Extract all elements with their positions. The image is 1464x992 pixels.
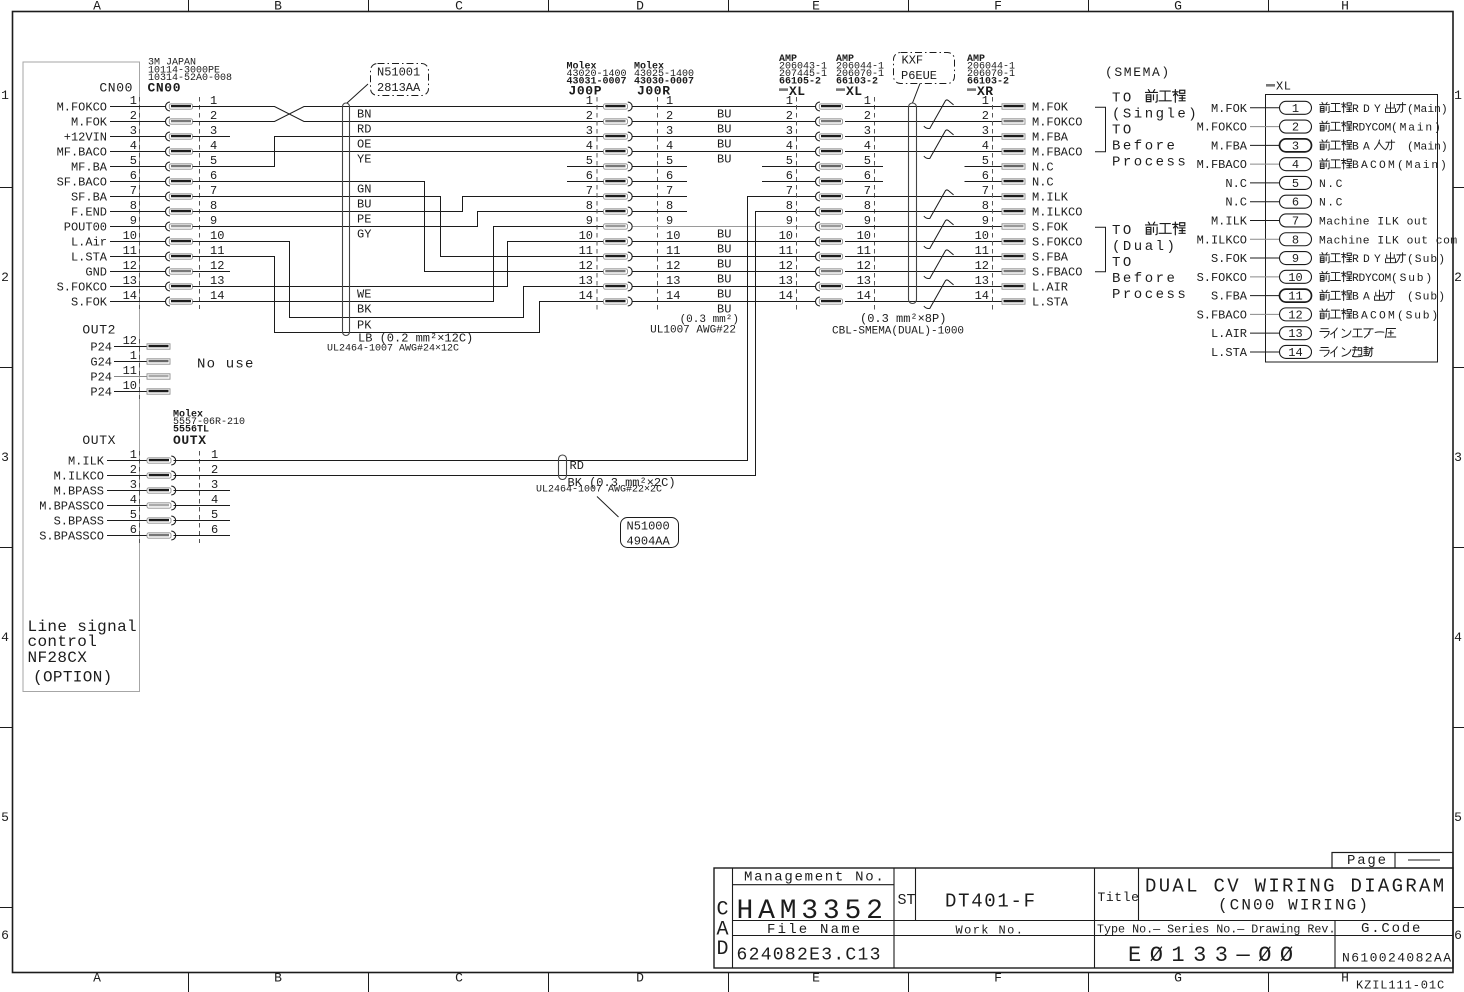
svg-text:10: 10 xyxy=(579,229,593,243)
svg-text:No use: No use xyxy=(197,357,255,373)
svg-text:8: 8 xyxy=(210,199,217,213)
svg-text:YE: YE xyxy=(357,153,371,167)
svg-text:7: 7 xyxy=(666,184,673,198)
svg-text:5: 5 xyxy=(864,154,871,168)
svg-text:1: 1 xyxy=(130,349,137,363)
svg-text:2: 2 xyxy=(1292,121,1299,135)
svg-text:M.ILK: M.ILK xyxy=(68,455,105,469)
svg-text:6: 6 xyxy=(864,169,871,183)
svg-text:5: 5 xyxy=(982,154,989,168)
svg-text:Page: Page xyxy=(1347,853,1388,869)
svg-text:(Sub): (Sub) xyxy=(1407,292,1446,304)
svg-text:BA: BA xyxy=(1352,292,1374,304)
svg-text:2813AA: 2813AA xyxy=(377,81,421,95)
svg-text:13: 13 xyxy=(123,274,137,288)
svg-text:10: 10 xyxy=(975,229,989,243)
wire CN00-4 to J00P-4 xyxy=(193,151,604,153)
svg-text:5: 5 xyxy=(130,508,137,522)
svg-text:11: 11 xyxy=(779,244,793,258)
wire XL-B-8 to XR-8 xyxy=(845,211,1002,213)
svg-text:10: 10 xyxy=(857,229,871,243)
wire stub XR-6 left xyxy=(965,181,1003,183)
svg-text:M.ILKCO: M.ILKCO xyxy=(54,470,104,484)
svg-text:UL2464-1007 AWG#24×12C: UL2464-1007 AWG#24×12C xyxy=(327,344,459,355)
svg-text:1: 1 xyxy=(130,94,137,108)
svg-text:9: 9 xyxy=(982,214,989,228)
svg-text:1: 1 xyxy=(1454,88,1462,103)
svg-text:N.C: N.C xyxy=(1225,196,1247,210)
svg-text:14: 14 xyxy=(210,289,224,303)
svg-text:P24: P24 xyxy=(90,341,112,355)
svg-text:BACOM: BACOM xyxy=(1352,160,1397,172)
svg-text:RD: RD xyxy=(357,123,371,137)
svg-text:WE: WE xyxy=(357,288,371,302)
svg-text:S.FBACO: S.FBACO xyxy=(1032,266,1082,280)
svg-text:1: 1 xyxy=(786,94,793,108)
svg-text:6: 6 xyxy=(1292,196,1299,210)
svg-text:2: 2 xyxy=(864,109,871,123)
wire XL-B-9 to XR-9 xyxy=(845,226,1002,228)
svg-text:BU: BU xyxy=(717,258,731,272)
wire CN00-8 to J00P-7 xyxy=(193,197,604,212)
svg-text:A: A xyxy=(93,0,101,14)
svg-text:L.STA: L.STA xyxy=(1211,346,1248,360)
svg-text:MF.BA: MF.BA xyxy=(71,161,108,175)
svg-text:E: E xyxy=(812,0,820,14)
svg-text:4904AA: 4904AA xyxy=(627,535,671,549)
svg-text:S.FOK: S.FOK xyxy=(71,296,108,310)
svg-text:9: 9 xyxy=(130,214,137,228)
connector CN00 mating face dashed lines xyxy=(139,97,141,309)
svg-text:KZIL111-01C: KZIL111-01C xyxy=(1356,979,1445,992)
connector XL table box xyxy=(1266,95,1438,363)
svg-text:1: 1 xyxy=(982,94,989,108)
bracket XR pins 9-12 dual group xyxy=(1095,227,1106,271)
svg-text:5: 5 xyxy=(586,154,593,168)
svg-text:XL: XL xyxy=(1276,80,1291,94)
svg-text:6: 6 xyxy=(211,523,218,537)
svg-text:L.Air: L.Air xyxy=(71,236,107,250)
wire XL-B-1 to XR-1 xyxy=(845,106,1002,108)
svg-text:2: 2 xyxy=(210,109,217,123)
svg-text:GND: GND xyxy=(85,266,107,280)
svg-text:6: 6 xyxy=(666,169,673,183)
svg-text:N51000: N51000 xyxy=(627,520,670,534)
svg-text:CN00: CN00 xyxy=(99,81,133,96)
svg-text:RDYCOM: RDYCOM xyxy=(1352,273,1391,285)
svg-text:OUTX: OUTX xyxy=(82,433,116,448)
twisted pair mark wires 11-12 xyxy=(924,250,954,279)
svg-text:12: 12 xyxy=(579,259,593,273)
svg-text:4: 4 xyxy=(864,139,871,153)
svg-text:1: 1 xyxy=(864,94,871,108)
svg-text:6: 6 xyxy=(1454,928,1462,943)
wire CN00-10 to J00P-13 xyxy=(193,242,604,318)
svg-text:F: F xyxy=(994,0,1002,14)
svg-text:8: 8 xyxy=(130,199,137,213)
svg-text:(Main): (Main) xyxy=(1407,104,1448,116)
svg-text:TO: TO xyxy=(1112,255,1134,271)
svg-text:14: 14 xyxy=(975,289,989,303)
wire XL-B-3 to XR-3 xyxy=(845,136,1002,138)
wire CN00-11 to J00P-14 xyxy=(193,257,604,333)
svg-text:9: 9 xyxy=(1292,252,1299,266)
svg-text:L.AIR: L.AIR xyxy=(1211,327,1247,341)
svg-text:4: 4 xyxy=(666,139,673,153)
svg-text:M.ILKCO: M.ILKCO xyxy=(1197,233,1247,247)
balloon KXF P6EUE xyxy=(894,53,955,84)
svg-text:TO: TO xyxy=(1112,123,1134,139)
svg-text:7: 7 xyxy=(210,184,217,198)
twisted pair mark wires 1-2 xyxy=(924,100,954,129)
svg-text:3: 3 xyxy=(1,450,9,465)
svg-text:4: 4 xyxy=(211,493,218,507)
wire XL-B-11 to XR-11 xyxy=(845,256,1002,258)
svg-text:File Name: File Name xyxy=(767,922,862,938)
svg-text:11: 11 xyxy=(210,244,224,258)
svg-text:4: 4 xyxy=(1454,630,1462,645)
svg-text:8: 8 xyxy=(864,199,871,213)
svg-text:2: 2 xyxy=(666,109,673,123)
cable LB 12C sheath oval xyxy=(343,103,350,336)
svg-text:OUTX: OUTX xyxy=(173,433,207,448)
svg-text:9: 9 xyxy=(210,214,217,228)
wire stub J00R-5 xyxy=(633,166,688,168)
svg-text:9: 9 xyxy=(786,214,793,228)
cable BK 2C sheath oval xyxy=(559,455,567,480)
svg-text:Process: Process xyxy=(1112,287,1188,303)
svg-text:3: 3 xyxy=(130,478,137,492)
svg-text:N.C: N.C xyxy=(1225,177,1247,191)
wire stub XL-A-6 left xyxy=(762,181,816,183)
svg-text:S.BPASSCO: S.BPASSCO xyxy=(39,530,104,544)
svg-text:4: 4 xyxy=(130,139,137,153)
svg-text:P6EUE: P6EUE xyxy=(901,69,937,83)
svg-text:L.STA: L.STA xyxy=(71,251,108,265)
connector XL table header xyxy=(1266,84,1275,87)
wire J00R-9 to XL-9 xyxy=(633,226,816,228)
svg-text:12: 12 xyxy=(975,259,989,273)
svg-text:TO: TO xyxy=(1112,223,1134,239)
svg-text:12: 12 xyxy=(779,259,793,273)
svg-text:12: 12 xyxy=(1288,308,1302,322)
svg-text:7: 7 xyxy=(786,184,793,198)
svg-text:ST: ST xyxy=(898,892,916,909)
svg-text:2: 2 xyxy=(1454,270,1462,285)
svg-text:Process: Process xyxy=(1112,155,1188,171)
svg-text:CN00: CN00 xyxy=(148,81,182,96)
svg-text:S.BPASS: S.BPASS xyxy=(54,515,104,529)
wire stub OUTX-3 xyxy=(174,490,231,492)
svg-text:PK: PK xyxy=(357,319,372,333)
wire CN00-14 to J00P-9 xyxy=(193,227,604,302)
svg-text:4: 4 xyxy=(1292,158,1299,172)
svg-text:2: 2 xyxy=(211,463,218,477)
svg-text:G: G xyxy=(1174,971,1182,986)
svg-text:Before: Before xyxy=(1112,271,1177,287)
svg-text:M.FOK: M.FOK xyxy=(1211,102,1248,116)
svg-text:4: 4 xyxy=(1,630,9,645)
cable SMEMA sheath oval xyxy=(909,103,917,304)
wire stub OUTX-6 xyxy=(174,535,231,537)
wire stub J00P-5 xyxy=(567,166,604,168)
wire J00R-10 to XL-10 xyxy=(633,241,816,243)
svg-text:BU: BU xyxy=(717,123,731,137)
wire stub CN00-3 xyxy=(193,136,231,138)
svg-text:RDY: RDY xyxy=(1352,104,1385,116)
svg-text:5: 5 xyxy=(130,154,137,168)
svg-text:M.FOKCO: M.FOKCO xyxy=(1032,116,1082,130)
svg-text:Type No.— Series No.— Drawing: Type No.— Series No.— Drawing Rev. xyxy=(1097,923,1335,937)
svg-text:11: 11 xyxy=(666,244,680,258)
wire stub XL-B-5 right xyxy=(845,166,883,168)
svg-text:EØ133—ØØ: EØ133—ØØ xyxy=(1128,943,1302,968)
svg-text:E: E xyxy=(812,971,820,986)
svg-text:3: 3 xyxy=(211,478,218,492)
svg-text:P24: P24 xyxy=(90,386,112,400)
svg-text:N.C: N.C xyxy=(1032,176,1054,190)
svg-text:N.C: N.C xyxy=(1032,161,1054,175)
wire stub OUTX-5 xyxy=(174,520,231,522)
svg-text:OE: OE xyxy=(357,138,371,152)
svg-text:BU: BU xyxy=(717,243,731,257)
svg-text:H: H xyxy=(1341,971,1349,986)
svg-text:Machine ILK out: Machine ILK out xyxy=(1319,216,1429,228)
svg-text:6: 6 xyxy=(586,169,593,183)
svg-text:10: 10 xyxy=(210,229,224,243)
wire XL-B-12 to XR-12 xyxy=(845,271,1002,273)
wire stub J00R-7 xyxy=(633,196,688,198)
svg-text:8: 8 xyxy=(982,199,989,213)
svg-text:13: 13 xyxy=(975,274,989,288)
svg-text:S.FOK: S.FOK xyxy=(1032,221,1069,235)
svg-text:M.ILKCO: M.ILKCO xyxy=(1032,206,1082,220)
svg-text:6: 6 xyxy=(786,169,793,183)
connector XL mating face dashed lines xyxy=(796,97,798,310)
svg-text:4: 4 xyxy=(982,139,989,153)
svg-text:13: 13 xyxy=(579,274,593,288)
svg-text:POUT00: POUT00 xyxy=(64,221,107,235)
svg-text:N.C: N.C xyxy=(1319,179,1344,191)
svg-text:1: 1 xyxy=(1,88,9,103)
wire OUTX-2 (M.ILKCO) to XL-8 xyxy=(174,212,816,476)
wire OUTX-1 (M.ILK) to XL-7 xyxy=(174,197,816,461)
svg-text:B: B xyxy=(274,0,282,14)
svg-text:8: 8 xyxy=(1292,233,1299,247)
svg-text:2: 2 xyxy=(786,109,793,123)
svg-text:7: 7 xyxy=(586,184,593,198)
svg-text:S.FOKCO: S.FOKCO xyxy=(1032,236,1082,250)
svg-text:4: 4 xyxy=(130,493,137,507)
svg-text:5: 5 xyxy=(666,154,673,168)
svg-text:XL: XL xyxy=(846,84,863,99)
svg-text:3: 3 xyxy=(1454,450,1462,465)
svg-text:9: 9 xyxy=(666,214,673,228)
svg-text:13: 13 xyxy=(1288,327,1302,341)
svg-text:11: 11 xyxy=(975,244,989,258)
svg-text:G.Code: G.Code xyxy=(1361,921,1422,937)
svg-text:3: 3 xyxy=(130,124,137,138)
wire stub J00R-8 xyxy=(633,211,688,213)
wire CN00-9 to J00P-8 xyxy=(193,212,604,227)
svg-text:9: 9 xyxy=(864,214,871,228)
svg-text:(Main): (Main) xyxy=(1397,160,1449,172)
wire J00R-2 to XL-2 xyxy=(633,121,816,123)
svg-text:SF.BACO: SF.BACO xyxy=(57,176,107,190)
wire stub XR-5 left xyxy=(965,166,1003,168)
svg-text:F.END: F.END xyxy=(71,206,107,220)
balloon N51001 2813AA xyxy=(371,64,429,96)
svg-text:L.AIR: L.AIR xyxy=(1032,281,1068,295)
svg-text:1: 1 xyxy=(1292,102,1299,116)
twisted pair mark wires 13-14 xyxy=(924,280,954,309)
wire J00R-3 to XL-3 xyxy=(633,136,816,138)
svg-text:5: 5 xyxy=(1454,810,1462,825)
svg-text:(Sub): (Sub) xyxy=(1397,310,1440,322)
svg-text:RDY: RDY xyxy=(1352,254,1385,266)
svg-text:GN: GN xyxy=(357,183,371,197)
svg-text:(0.3 mm²×8P): (0.3 mm²×8P) xyxy=(860,312,946,326)
svg-text:(Sub): (Sub) xyxy=(1407,254,1446,266)
svg-text:7: 7 xyxy=(864,184,871,198)
svg-text:M.FBACO: M.FBACO xyxy=(1197,158,1247,172)
svg-text:UL1007 AWG#22: UL1007 AWG#22 xyxy=(650,325,736,337)
svg-text:M.FBA: M.FBA xyxy=(1032,131,1069,145)
svg-text:N.C: N.C xyxy=(1319,198,1344,210)
connector XR mating face dashed line xyxy=(992,97,994,310)
svg-text:DT401-F: DT401-F xyxy=(945,891,1037,913)
svg-text:5: 5 xyxy=(210,154,217,168)
wire stub J00R-6 xyxy=(633,181,688,183)
svg-text:L.STA: L.STA xyxy=(1032,296,1069,310)
wire J00R-4 to XL-4 xyxy=(633,151,816,153)
svg-text:7: 7 xyxy=(1292,214,1299,228)
svg-text:M.ILK: M.ILK xyxy=(1032,191,1069,205)
svg-text:(Main): (Main) xyxy=(1407,141,1448,153)
svg-text:14: 14 xyxy=(857,289,871,303)
svg-text:S.FBA: S.FBA xyxy=(1032,251,1069,265)
svg-text:A: A xyxy=(93,971,101,986)
svg-text:RD: RD xyxy=(570,459,584,473)
svg-text:3: 3 xyxy=(586,124,593,138)
wire J00R-13 to XL-13 xyxy=(633,286,816,288)
svg-text:PE: PE xyxy=(357,213,371,227)
svg-text:4: 4 xyxy=(786,139,793,153)
svg-text:M.BPASSCO: M.BPASSCO xyxy=(39,500,104,514)
svg-text:5: 5 xyxy=(211,508,218,522)
svg-text:13: 13 xyxy=(779,274,793,288)
twisted pair mark wires 7-8 xyxy=(924,190,954,219)
wire XL-B-10 to XR-10 xyxy=(845,241,1002,243)
svg-text:(Dual): (Dual) xyxy=(1112,239,1177,255)
wire XL-B-4 to XR-4 xyxy=(845,151,1002,153)
svg-text:M.FOK: M.FOK xyxy=(71,116,108,130)
svg-text:1: 1 xyxy=(586,94,593,108)
svg-text:(Sub): (Sub) xyxy=(1391,273,1434,285)
svg-text:12: 12 xyxy=(666,259,680,273)
svg-text:3: 3 xyxy=(210,124,217,138)
svg-text:10: 10 xyxy=(666,229,680,243)
svg-text:1: 1 xyxy=(210,94,217,108)
svg-text:5: 5 xyxy=(786,154,793,168)
svg-text:13: 13 xyxy=(666,274,680,288)
wire stub OUTX-4 xyxy=(174,505,231,507)
wire XL-B-2 to XR-2 xyxy=(845,121,1002,123)
svg-text:KXF: KXF xyxy=(902,54,924,68)
title block page box xyxy=(1332,853,1453,869)
svg-text:DUAL CV WIRING DIAGRAM: DUAL CV WIRING DIAGRAM xyxy=(1145,876,1446,898)
svg-text:GY: GY xyxy=(357,228,371,242)
svg-text:G24: G24 xyxy=(90,356,112,370)
svg-text:13: 13 xyxy=(857,274,871,288)
svg-text:C: C xyxy=(455,971,463,986)
svg-text:S.FOK: S.FOK xyxy=(1211,252,1248,266)
wire J00R-1 to XL-1 xyxy=(633,106,816,108)
svg-text:Title: Title xyxy=(1098,890,1140,905)
svg-text:10: 10 xyxy=(779,229,793,243)
svg-text:M.ILK: M.ILK xyxy=(1211,214,1248,228)
svg-text:11: 11 xyxy=(123,244,137,258)
svg-text:12: 12 xyxy=(123,334,137,348)
unit NF28CX boundary box xyxy=(23,62,140,692)
svg-text:C: C xyxy=(455,0,463,14)
svg-text:2: 2 xyxy=(130,109,137,123)
svg-text:2: 2 xyxy=(1,270,9,285)
svg-text:BU: BU xyxy=(717,108,731,122)
svg-text:BU: BU xyxy=(717,273,731,287)
svg-text:4: 4 xyxy=(210,139,217,153)
svg-text:1: 1 xyxy=(130,448,137,462)
svg-text:8: 8 xyxy=(786,199,793,213)
svg-text:6: 6 xyxy=(210,169,217,183)
svg-text:RDYCOM: RDYCOM xyxy=(1352,123,1391,135)
wire CN00-6 to J00P-12 xyxy=(193,182,604,272)
svg-text:2: 2 xyxy=(586,109,593,123)
svg-text:BK: BK xyxy=(357,303,372,317)
svg-text:1: 1 xyxy=(666,94,673,108)
wire XL-B-13 to XR-13 xyxy=(845,286,1002,288)
svg-text:10: 10 xyxy=(123,229,137,243)
svg-text:6: 6 xyxy=(130,523,137,537)
svg-text:BU: BU xyxy=(717,138,731,152)
svg-text:(Single): (Single) xyxy=(1112,107,1199,123)
svg-text:Machine ILK out com: Machine ILK out com xyxy=(1319,235,1458,247)
wire XL-B-14 to XR-14 xyxy=(845,301,1002,303)
wire CN00-13 to J00P-10 xyxy=(193,242,604,287)
wire J00R-11 to XL-11 xyxy=(633,256,816,258)
svg-text:(CN00 WIRING): (CN00 WIRING) xyxy=(1218,897,1370,915)
svg-text:Before: Before xyxy=(1112,139,1177,155)
svg-text:BA: BA xyxy=(1352,141,1374,153)
svg-text:CBL-SMEMA(DUAL)-1000: CBL-SMEMA(DUAL)-1000 xyxy=(832,326,964,338)
wire J00R-14 to XL-14 xyxy=(633,301,816,303)
svg-text:Management No.: Management No. xyxy=(744,870,885,886)
svg-text:TO: TO xyxy=(1112,91,1134,107)
balloon N51000 4904AA xyxy=(621,518,679,548)
svg-text:D: D xyxy=(636,0,644,14)
svg-text:3: 3 xyxy=(982,124,989,138)
wire CN00-7 to J00P-11 xyxy=(193,197,604,257)
svg-text:5: 5 xyxy=(1,810,9,825)
svg-text:N610024082AA: N610024082AA xyxy=(1342,951,1452,966)
svg-text:10: 10 xyxy=(123,379,137,393)
svg-text:6: 6 xyxy=(130,169,137,183)
svg-text:9: 9 xyxy=(586,214,593,228)
svg-text:8: 8 xyxy=(666,199,673,213)
wire J00R-12 to XL-12 xyxy=(633,271,816,273)
svg-text:M.FOKCO: M.FOKCO xyxy=(1197,121,1247,135)
svg-text:N51001: N51001 xyxy=(377,65,420,79)
